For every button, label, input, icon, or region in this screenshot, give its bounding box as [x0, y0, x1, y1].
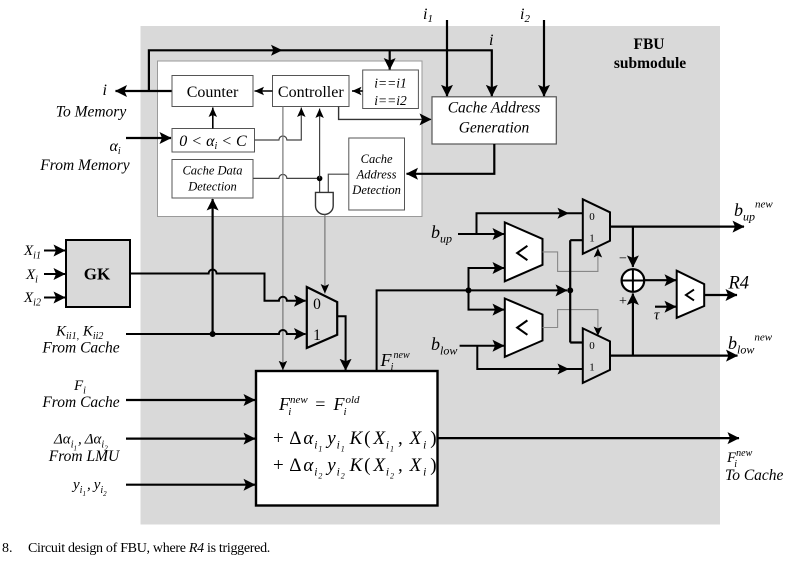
block Counter	[172, 76, 253, 107]
svg-text:R4: R4	[728, 274, 750, 294]
svg-text:Generation: Generation	[459, 120, 530, 137]
mux M1 (kernel select)	[307, 287, 337, 348]
wire alpha_i input arrow	[126, 137, 171, 139]
block comparator i==i1 i==i2	[363, 70, 419, 109]
wire center vertical to mux inputs	[570, 240, 583, 342]
block Cache Data Detection	[172, 160, 253, 199]
svg-text:Circuit design of FBU, where R: Circuit design of FBU, where R4 is trigg…	[28, 541, 270, 556]
svg-text:0: 0	[589, 211, 595, 223]
node junction at center vertical	[567, 287, 573, 293]
node junction on CDD output	[317, 176, 323, 182]
label b_low	[431, 334, 457, 358]
adder	[622, 269, 645, 292]
wire CAG output to cache address detection	[407, 144, 495, 174]
node junction on feedback wire	[466, 287, 472, 293]
wire top line branch down into i==i1 box	[389, 50, 391, 69]
wire branch down to adder minus	[632, 227, 634, 267]
mux M3 (b_low select)	[583, 328, 610, 383]
svg-text:i==i1: i==i1	[374, 76, 406, 91]
wire mux M1 output to F box	[337, 316, 345, 370]
label K_ii1 K_ii2	[55, 324, 103, 343]
label FBU submodule	[614, 36, 686, 72]
wire alpha box output to controller (with hop)	[255, 108, 302, 141]
svg-text:From Cache: From Cache	[41, 340, 119, 357]
svg-text:i==i2: i==i2	[374, 93, 407, 108]
svg-text:−: −	[619, 252, 627, 267]
label i1 input	[423, 6, 433, 25]
svg-text:i: i	[103, 82, 107, 99]
label F_i^new above box	[380, 350, 410, 373]
arrowhead on b_low branch	[558, 364, 570, 375]
label From Memory	[39, 157, 130, 174]
wire i2 down to CAG	[543, 20, 545, 96]
block Cache Address Detection	[349, 138, 405, 210]
comparator U2	[505, 299, 543, 357]
svg-text:i: i	[489, 32, 493, 49]
detection submodule inner box	[158, 61, 423, 217]
label R4	[728, 274, 750, 294]
wire delta alpha input	[126, 438, 255, 440]
svg-text:1: 1	[589, 233, 595, 245]
block GK	[66, 240, 130, 307]
wire AND output down to mux select	[324, 215, 326, 294]
svg-text:submodule: submodule	[614, 55, 686, 72]
label Delta alpha From LMU	[48, 432, 121, 466]
label X_i2	[23, 290, 41, 309]
svg-text:8.: 8.	[2, 541, 13, 556]
label i2 input	[520, 6, 530, 25]
comparator U3 (R4 trigger)	[677, 271, 705, 318]
arrowhead on b_up branch	[558, 208, 570, 219]
wire tau input to comparator U3	[655, 306, 676, 308]
wire controller down to F box (thin)	[282, 107, 284, 371]
wire comparator U2 output to mux M3 select	[543, 310, 598, 336]
svg-text:From Cache: From Cache	[41, 394, 119, 411]
wire b_up branch to mux M2 input 0	[477, 213, 583, 234]
wire feedback branch down to comparator U2	[469, 290, 505, 309]
svg-text:From LMU: From LMU	[48, 448, 121, 465]
label b_up	[431, 222, 452, 246]
wire X_i input	[44, 273, 65, 275]
wire comparator U3 output R4	[704, 294, 737, 296]
label plus	[619, 294, 627, 309]
wire b_low branch to mux M3 input 1	[477, 346, 583, 369]
wire GK output to mux 0 input (hops)	[130, 270, 306, 301]
wire b_low to comparator U2	[460, 345, 504, 347]
svg-text:0 < αi < C: 0 < αi < C	[179, 133, 247, 152]
wire counter output loop to top	[149, 50, 492, 96]
svg-text:To Cache: To Cache	[725, 467, 784, 484]
wire controller to counter	[255, 90, 273, 92]
label From Cache	[41, 340, 119, 357]
label y_i1 y_i2	[71, 477, 107, 498]
wire X_i1 input	[44, 250, 65, 252]
wire F box output to cache	[438, 437, 740, 439]
node junction on K wire	[210, 331, 216, 337]
svg-text:0: 0	[589, 340, 595, 352]
label b_up_new	[734, 199, 773, 224]
svg-text:Address: Address	[356, 168, 397, 182]
wire b_up to comparator U1	[458, 233, 504, 235]
svg-text:Cache Data: Cache Data	[182, 164, 242, 178]
wire junction up to cache data detection	[212, 199, 214, 334]
AND gate	[316, 192, 334, 214]
label i to memory	[103, 82, 107, 99]
svg-text:Controller: Controller	[278, 84, 344, 101]
svg-text:FBU: FBU	[634, 36, 665, 53]
svg-text:Cache Address: Cache Address	[448, 100, 541, 117]
wire F_i input	[126, 399, 255, 401]
svg-text:+: +	[619, 294, 627, 309]
wire mux M3 output b_low_new	[610, 355, 738, 357]
block 0 < alpha_i < C	[172, 129, 255, 153]
wire mux M2 output b_up_new	[610, 226, 744, 228]
svg-text:1: 1	[313, 327, 321, 344]
svg-text:To Memory: To Memory	[56, 104, 127, 121]
wire junction up to controller	[319, 109, 321, 179]
label X_i1	[23, 243, 41, 262]
wire X_i2 input	[44, 297, 65, 299]
label minus	[619, 252, 627, 267]
svg-text:τ: τ	[654, 308, 660, 324]
label To Memory	[56, 104, 127, 121]
wire from b_low_new line up to adder plus	[632, 294, 634, 355]
svg-text:GK: GK	[84, 265, 111, 284]
block Controller	[273, 76, 350, 107]
label alpha_i	[110, 138, 121, 157]
label tau	[654, 308, 660, 324]
svg-text:Detection: Detection	[187, 180, 237, 194]
svg-text:1: 1	[589, 362, 595, 374]
label X_i	[25, 267, 38, 286]
comparator U1	[505, 222, 543, 281]
label F_i^new to cache	[725, 448, 784, 484]
wire controller to cache address generation	[339, 107, 431, 120]
block Cache Address Generation	[432, 97, 556, 144]
label i above top wire	[489, 32, 493, 49]
svg-text:Detection: Detection	[351, 183, 401, 197]
label b_low_new	[728, 332, 773, 357]
mux M2 (b_up select)	[583, 199, 610, 254]
wire alpha box up to counter	[212, 108, 214, 129]
wire K from cache to mux 1 input (hop)	[126, 330, 306, 334]
wire i==i1 box to controller	[352, 90, 363, 92]
wire cache address detection to AND gate	[328, 174, 349, 192]
wire i1 down to CAG	[446, 20, 448, 96]
caption figure	[2, 541, 270, 556]
svg-text:Cache: Cache	[361, 152, 393, 166]
wire feedback branch up to comparator U1	[469, 268, 505, 290]
gray panel FBU submodule background	[141, 26, 721, 525]
label F_i From Cache	[41, 378, 119, 411]
wire adder output to comparator U3	[644, 279, 676, 281]
svg-text:From Memory: From Memory	[39, 157, 130, 174]
wire F_i^new feedback from box top	[377, 290, 567, 371]
wire counter output to memory (i)	[116, 90, 173, 92]
svg-text:Counter: Counter	[187, 84, 239, 101]
svg-text:0: 0	[313, 296, 321, 313]
block F update formula box	[256, 371, 438, 506]
wire cache data detection output (with hop)	[253, 174, 320, 192]
arrowhead mid of top wire	[271, 45, 283, 56]
wire comparator U1 output to mux M2 select	[543, 248, 598, 271]
wire y input	[126, 484, 255, 486]
